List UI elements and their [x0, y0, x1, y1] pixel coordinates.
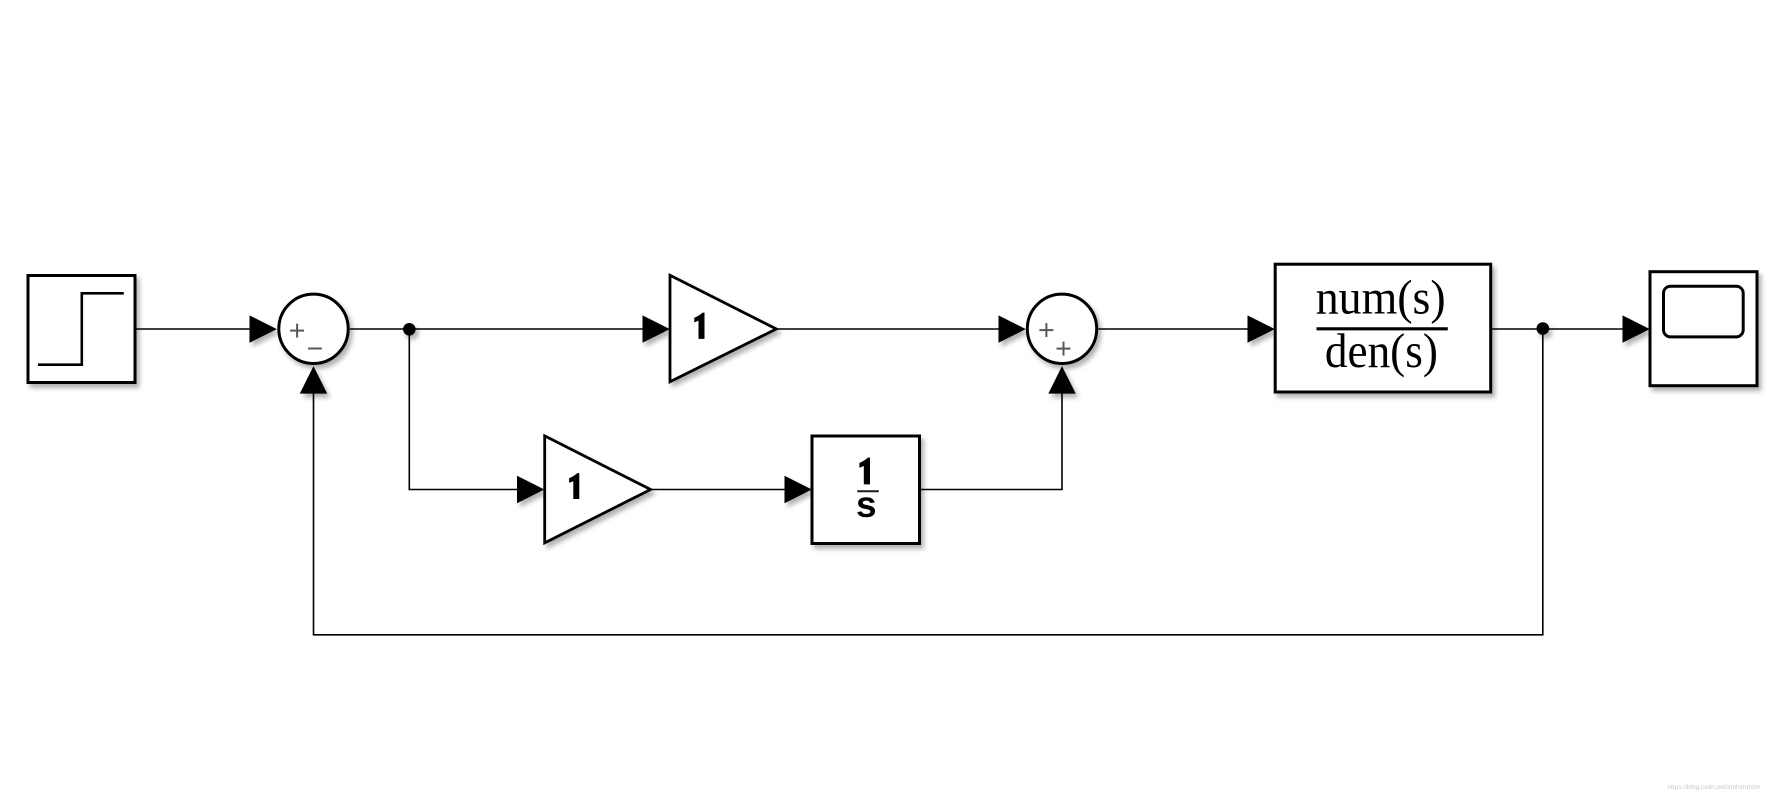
- gain block Gain1 value 1: [670, 275, 776, 381]
- Sum2 sign + (input 1): [1039, 323, 1053, 337]
- arrowhead Gain2 input: [517, 476, 544, 503]
- arrowhead Scope input: [1623, 315, 1650, 342]
- node branch junction A: [403, 323, 416, 336]
- Sum1 sign - (input 2): [308, 348, 322, 350]
- Gain1 value label 1: [694, 313, 704, 339]
- wire Sum1 output to Gain1: [350, 328, 643, 330]
- step source block Step: [28, 276, 135, 383]
- arrowhead Transfer Fcn input: [1248, 315, 1275, 342]
- node output junction B: [1537, 322, 1550, 335]
- summing junction Sum1: [279, 294, 348, 363]
- Integrator label 1 over s: [859, 458, 870, 485]
- wire Sum2 output to Transfer Fcn: [1098, 328, 1249, 330]
- Gain2 value label 1: [569, 473, 579, 499]
- arrowhead Integrator input: [785, 476, 812, 503]
- arrowhead Gain1 input: [643, 315, 670, 342]
- wire branch node A down and right to Gain2: [409, 329, 518, 489]
- Transfer Fcn fraction bar: [1317, 327, 1448, 330]
- transfer function block num(s)/den(s): [1275, 264, 1491, 392]
- arrowhead Sum1 input port 1: [250, 315, 277, 342]
- arrowhead Sum1 input port 2 (from feedback): [300, 366, 327, 394]
- gain block Gain2 value 1: [545, 436, 651, 543]
- integrator block 1/s: [812, 436, 920, 544]
- svg-text:s: s: [856, 484, 877, 525]
- wire Gain2 output to Integrator: [651, 489, 786, 491]
- svg-text:den(s): den(s): [1325, 323, 1438, 378]
- wire Integrator output up to Sum2 lower input: [920, 393, 1062, 490]
- Sum1 sign + (input 1): [290, 324, 304, 338]
- svg-text:https://blog.csdn.net/zmhzmhzm: https://blog.csdn.net/zmhzmhzm: [1667, 784, 1760, 791]
- scope block Scope: [1650, 272, 1757, 386]
- wire feedback from node B down, left, up to Sum1: [314, 329, 1543, 635]
- Sum2 sign + (input 2): [1057, 342, 1071, 356]
- wire Step output to Sum1: [136, 328, 252, 330]
- summing junction Sum2: [1027, 294, 1096, 363]
- wire Transfer Fcn output to Scope: [1491, 328, 1623, 330]
- wire Gain1 output to Sum2: [776, 328, 1000, 330]
- arrowhead Sum2 input port 2 (from integrator): [1048, 366, 1075, 394]
- svg-text:num(s): num(s): [1316, 270, 1446, 325]
- arrowhead Sum2 input port 1: [999, 315, 1026, 342]
